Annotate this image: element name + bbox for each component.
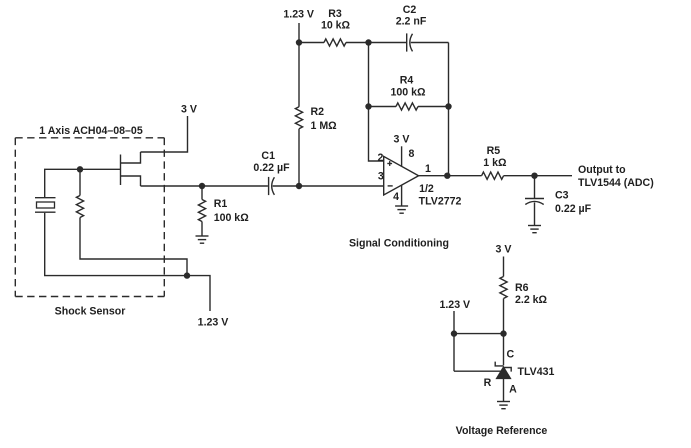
capacitor C2 2.2 nF bbox=[396, 4, 427, 52]
svg-text:100 kΩ: 100 kΩ bbox=[214, 212, 250, 224]
capacitor C1 0.22 uF bbox=[253, 150, 290, 195]
svg-text:C3: C3 bbox=[555, 190, 569, 202]
svg-text:2.2 nF: 2.2 nF bbox=[396, 16, 427, 28]
resistor R3 10 kOhm bbox=[321, 8, 351, 46]
wire R2 bottom lead to signal node bbox=[298, 129, 300, 186]
node junction dot R4 right bbox=[445, 103, 451, 109]
resistor R1 100 kOhm bbox=[198, 186, 249, 236]
svg-text:R: R bbox=[484, 377, 492, 389]
wire C2 node to C2 left plate bbox=[369, 42, 407, 44]
resistor R2 1 MOhm bbox=[295, 106, 337, 132]
wire sensor bottom to 1.23V stub bbox=[187, 276, 210, 311]
svg-text:8: 8 bbox=[409, 148, 415, 160]
node junction dot R6/ref bbox=[500, 330, 506, 336]
wire R4 left lead bbox=[369, 106, 397, 108]
svg-text:4: 4 bbox=[393, 191, 399, 203]
node junction dot gate bbox=[77, 166, 83, 172]
resistor internal (sensor) bbox=[76, 196, 83, 218]
wire gate node to piezo top bbox=[45, 169, 80, 197]
svg-text:1: 1 bbox=[425, 163, 431, 175]
svg-text:TLV2772: TLV2772 bbox=[419, 195, 462, 207]
ground TLV431 bbox=[497, 402, 510, 409]
svg-text:C1: C1 bbox=[261, 150, 275, 162]
wire piezo bottom lead bbox=[45, 213, 187, 276]
svg-text:R6: R6 bbox=[515, 282, 529, 294]
transistor Q1 (sensor FET) bbox=[80, 152, 141, 186]
wire 1.23V stub down bbox=[453, 311, 455, 371]
wire 3V to R6 bbox=[503, 257, 505, 277]
svg-text:1.23 V: 1.23 V bbox=[439, 299, 470, 311]
wire reference input to TLV431 R pin bbox=[454, 370, 501, 372]
node junction dot feedback/output bbox=[444, 173, 450, 179]
wire 3V drop to transistor drain bbox=[141, 116, 188, 152]
wire R4 right lead bbox=[418, 106, 449, 108]
node junction dot 1.23V/ref bbox=[451, 330, 457, 336]
wire top rail left segment bbox=[299, 42, 324, 44]
wire internal resistor top lead bbox=[79, 169, 81, 195]
wire 1.23V drop to top rail bbox=[298, 23, 300, 43]
piezo element (shock sensor crystal) bbox=[35, 198, 56, 213]
svg-text:3: 3 bbox=[378, 171, 384, 183]
svg-text:1 Axis ACH04–08–05: 1 Axis ACH04–08–05 bbox=[39, 125, 143, 137]
pin 4 ground lead bbox=[393, 185, 402, 206]
svg-text:1 MΩ: 1 MΩ bbox=[311, 120, 338, 132]
svg-text:C: C bbox=[507, 349, 515, 361]
ground C3 bbox=[528, 226, 541, 233]
ground op-amp bbox=[395, 206, 408, 213]
svg-text:3 V: 3 V bbox=[181, 104, 197, 116]
wire R5 to output node bbox=[504, 175, 572, 177]
op-amp U1 1/2 TLV2772 bbox=[384, 156, 462, 207]
wire C2 right plate to right rail bbox=[411, 42, 449, 44]
svg-text:3 V: 3 V bbox=[394, 134, 410, 146]
svg-text:TLV431: TLV431 bbox=[518, 366, 555, 378]
wire R3 to C2 node bbox=[346, 42, 369, 44]
svg-text:R5: R5 bbox=[487, 145, 501, 157]
wire internal resistor bottom to junction bbox=[80, 218, 187, 276]
label Output to TLV1544 (ADC) bbox=[578, 164, 654, 189]
svg-text:1 kΩ: 1 kΩ bbox=[483, 157, 507, 169]
wire left rail down from C2 node to pin2 bbox=[369, 43, 384, 162]
svg-text:10 kΩ: 10 kΩ bbox=[321, 19, 351, 31]
wire R2 top lead bbox=[298, 43, 300, 107]
node junction dot R3/C2/inverting rail bbox=[365, 39, 371, 45]
svg-text:R3: R3 bbox=[328, 8, 342, 20]
svg-text:R2: R2 bbox=[311, 106, 325, 118]
svg-text:100 kΩ: 100 kΩ bbox=[390, 87, 426, 99]
shunt regulator U2 TLV431 bbox=[495, 362, 554, 379]
svg-text:1/2: 1/2 bbox=[419, 183, 434, 195]
svg-text:0.22 µF: 0.22 µF bbox=[253, 162, 290, 174]
svg-text:Shock Sensor: Shock Sensor bbox=[55, 305, 126, 317]
pin 8 power lead bbox=[402, 146, 415, 166]
svg-text:0.22 µF: 0.22 µF bbox=[555, 203, 592, 215]
svg-text:Output to: Output to bbox=[578, 164, 626, 176]
shock sensor dashed enclosure bbox=[15, 138, 164, 297]
svg-text:2.2 kΩ: 2.2 kΩ bbox=[515, 294, 548, 306]
ground R1 bbox=[196, 236, 209, 243]
resistor R5 1 kOhm bbox=[482, 145, 507, 179]
svg-text:Voltage Reference: Voltage Reference bbox=[456, 425, 548, 437]
svg-text:TLV1544 (ADC): TLV1544 (ADC) bbox=[578, 177, 654, 189]
wire TLV431 anode to ground bbox=[503, 379, 505, 402]
wire R6 to TLV431 cathode bbox=[503, 299, 505, 366]
resistor R4 100 kOhm bbox=[390, 75, 426, 111]
svg-text:A: A bbox=[509, 383, 517, 395]
wire C1 to op-amp pin3 bbox=[273, 185, 384, 187]
node junction dot R4 left bbox=[365, 103, 371, 109]
wire right feedback rail down bbox=[448, 43, 450, 176]
wire signal line transistor to C1 bbox=[141, 185, 268, 187]
node junction dot at 1.23V / R3 / R2 bbox=[296, 39, 302, 45]
svg-text:R1: R1 bbox=[214, 198, 228, 210]
wire ref cross connection bbox=[454, 333, 504, 335]
node junction dot C1/R2 bbox=[296, 183, 302, 189]
svg-text:2: 2 bbox=[378, 152, 384, 164]
node junction dot sensor bottom bbox=[184, 272, 190, 278]
svg-text:C2: C2 bbox=[403, 4, 417, 16]
svg-text:3 V: 3 V bbox=[496, 244, 512, 256]
svg-text:1.23 V: 1.23 V bbox=[283, 8, 314, 20]
svg-text:Signal Conditioning: Signal Conditioning bbox=[349, 237, 449, 249]
resistor R6 2.2 kOhm bbox=[500, 277, 548, 307]
wire op-amp output bbox=[419, 175, 482, 177]
svg-text:1.23 V: 1.23 V bbox=[198, 316, 229, 328]
node junction dot R5/C3 bbox=[531, 173, 537, 179]
capacitor C3 0.22 uF bbox=[525, 176, 592, 226]
svg-text:R4: R4 bbox=[400, 75, 414, 87]
node junction dot R1/signal bbox=[199, 183, 205, 189]
